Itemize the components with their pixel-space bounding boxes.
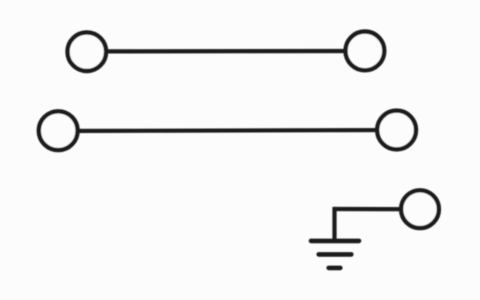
wire: ground lead (horizontal segment from contact to corner): [335, 207, 421, 211]
ground (earth symbol, middle bar): [319, 252, 352, 257]
wire: upper level conductor: [87, 49, 365, 54]
terminal contact 2 (upper right clamp circle): [346, 32, 385, 71]
terminal contact 1 (upper left clamp circle): [68, 32, 107, 71]
wire: middle level conductor: [59, 130, 397, 131]
ground (earth symbol, top bar): [311, 239, 359, 244]
terminal contact 4 (middle right clamp circle): [377, 111, 416, 150]
terminal contact 3 (middle left clamp circle): [39, 111, 78, 150]
ground (earth symbol, bottom bar): [329, 266, 341, 271]
wire: ground lead (vertical drop to earth symbol): [332, 207, 336, 241]
terminal contact 5 (ground clamp circle): [401, 190, 439, 228]
